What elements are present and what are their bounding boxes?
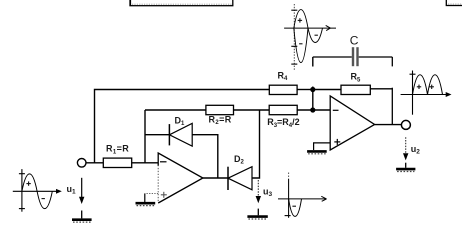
waveform icon at S2 (sine plus doubled half-wave) — [284, 4, 336, 70]
wire: U2 non-inverting input to ground — [314, 143, 331, 150]
wire: feedback column lower segment to output — [391, 88, 393, 125]
wire: summing node S1 column — [144, 110, 146, 163]
wire: S2 to R5 — [313, 89, 341, 91]
ground (U2 +) — [307, 151, 327, 153]
ground (u3) — [247, 209, 267, 219]
diode D1 — [169, 123, 192, 146]
node S2 junction dot (lower) — [310, 107, 315, 112]
u3 voltage arrow — [256, 180, 261, 203]
wire: R2 rail from S1 to R2 to R3 to node S2 — [145, 109, 313, 111]
waveform icon u1 (input sine) — [13, 169, 62, 212]
waveform icon u3 (negative half-wave) — [278, 173, 327, 218]
wire: C down to feedback column (upper segment) — [391, 57, 393, 66]
wire: R4 to S2 — [297, 89, 313, 91]
node S2 junction dot (upper) — [310, 87, 315, 92]
diode D2 — [228, 167, 252, 190]
resistor R1 — [103, 158, 131, 167]
ground (U1 +) — [136, 203, 156, 205]
wire: D2 to u3 node column — [252, 110, 260, 178]
wire: input to R1 to op-amp U1 — [86, 162, 158, 164]
u2 voltage arrow — [403, 137, 408, 160]
svg-text:C: C — [350, 34, 359, 48]
output terminal circle — [401, 120, 410, 129]
wire: U2 output to terminal — [375, 124, 402, 126]
wire: U1 non-inverting input to ground — [145, 193, 158, 195]
capacitor C — [313, 47, 393, 66]
resistor R5 — [341, 85, 370, 94]
wire: R5 to output column — [370, 88, 392, 90]
wire: S2 to op-amp U2 inverting input — [313, 109, 330, 111]
resistor R3 — [269, 105, 297, 114]
ground (u2) — [396, 163, 415, 172]
waveform icon u2 (full-wave rectified output) — [401, 71, 452, 115]
top-right cropped box — [446, 0, 462, 6]
wire: U1 output to D2 — [203, 177, 228, 179]
resistor R4 — [269, 85, 297, 94]
wire: S2 vertical link and capacitor branch riser — [312, 57, 314, 67]
u1 voltage arrow — [79, 178, 84, 204]
wire: R4 top rail from input riser to R4 — [95, 90, 270, 164]
op-amp U1 — [158, 153, 203, 203]
op-amp U2 — [330, 96, 374, 150]
resistor R2 — [206, 105, 234, 114]
wire: D1 rail from S1 column to corner above op-amp output — [145, 135, 218, 178]
input terminal circle — [77, 159, 86, 168]
ground (u1) — [72, 211, 92, 223]
top box (cropped rectangle) — [130, 0, 233, 6]
